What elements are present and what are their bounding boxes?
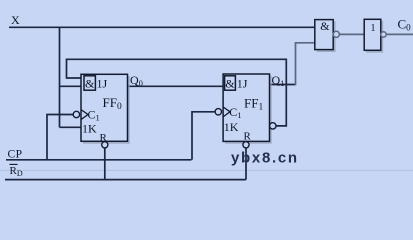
svg-text:CP: CP	[8, 149, 23, 161]
inverter box shadow	[366, 21, 382, 52]
FF0 reset bubble	[102, 142, 108, 148]
svg-text:1K: 1K	[224, 120, 239, 134]
wire inverter output to C0	[386, 33, 413, 35]
NAND gate U3 box	[315, 20, 333, 50]
NAND box shadow	[317, 21, 335, 51]
wire NAND output to inverter	[339, 33, 364, 35]
wire CP line	[6, 159, 192, 161]
wire Q1 output	[270, 84, 296, 86]
wire X to J lower input of FF0	[60, 85, 82, 87]
FF1 clock inversion bubble	[215, 109, 221, 115]
wire Q0 to J of FF1	[128, 85, 224, 87]
NAND output bubble	[333, 31, 339, 37]
svg-text:&: &	[225, 77, 235, 91]
svg-text:R: R	[244, 131, 252, 143]
wire FF1 clock from CP	[192, 112, 216, 160]
FF0 box shadow	[83, 76, 129, 143]
FF1 clock edge triangle	[223, 107, 230, 117]
flip-flop FF0 box	[81, 74, 128, 141]
svg-text:1K: 1K	[82, 122, 97, 136]
inverter output bubble	[381, 32, 386, 37]
wire FF1 reset drop	[245, 147, 247, 179]
wire RD reset line	[5, 179, 246, 181]
svg-text:ybx8.cn: ybx8.cn	[231, 150, 299, 167]
wire Q1 riser to NAND input	[296, 43, 315, 86]
svg-text:&: &	[320, 19, 330, 33]
faint horizontal rule	[0, 170, 413, 171]
FF0 clock inversion bubble	[73, 111, 79, 117]
inverter U4 box	[364, 19, 381, 50]
wire FF0 reset drop	[104, 147, 106, 179]
svg-text:1: 1	[371, 23, 376, 34]
FF1 AND-input box	[225, 76, 236, 90]
wire X input line	[9, 26, 315, 28]
FF1 box shadow	[225, 76, 271, 143]
svg-text:1J: 1J	[97, 77, 108, 91]
flip-flop FF1 box	[223, 74, 269, 141]
wire K input of FF0	[60, 126, 82, 128]
FF0 clock edge triangle	[81, 110, 88, 120]
svg-text:R: R	[100, 132, 108, 144]
svg-text:&: &	[85, 77, 95, 91]
wire FF0 clock from CP	[47, 115, 74, 160]
FF0 AND-input box	[84, 76, 95, 90]
FF1 Q1bar output bubble	[270, 123, 276, 129]
svg-text:1J: 1J	[237, 77, 248, 91]
svg-text:X: X	[11, 13, 20, 27]
wire X drop to J and K	[59, 27, 61, 127]
wire feedback Q1bar to J upper of FF0	[67, 59, 287, 126]
FF1 reset bubble	[243, 142, 249, 148]
